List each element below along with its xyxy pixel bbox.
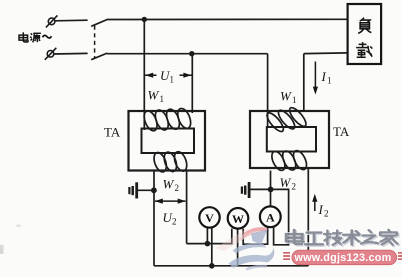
- label I2: [318, 202, 329, 219]
- junction node line1-TA1: [142, 17, 147, 22]
- winding W2 of TA2: [269, 149, 309, 173]
- transformer TA1 core outer box: [129, 111, 206, 171]
- label 载 (load char 2): [356, 42, 372, 57]
- ground symbol TA2: [242, 182, 271, 198]
- winding W2 of TA1: [152, 150, 189, 173]
- wire TA2 secondary left drop: [270, 171, 272, 190]
- label 负 (load char 1): [358, 18, 371, 34]
- winding W1 of TA1: [142, 107, 194, 133]
- svg-text:1: 1: [160, 94, 165, 104]
- wire line1 left segment: [55, 19, 88, 22]
- transformer TA2 core inner box: [267, 127, 316, 152]
- svg-text:W: W: [163, 177, 175, 192]
- wire line1 main: [107, 18, 348, 20]
- ammeter A: [260, 206, 281, 227]
- wire TA2 primary right riser: [303, 54, 305, 112]
- wire load branch bottom: [304, 52, 348, 55]
- switch blade top: [91, 20, 107, 27]
- wire TA1 primary right riser: [191, 54, 193, 113]
- svg-text:2: 2: [172, 217, 177, 227]
- label W1 of TA2: [280, 89, 297, 106]
- wire bus1 voltage: [187, 229, 232, 244]
- svg-text:2: 2: [292, 182, 297, 192]
- wire TA1 secondary left drop: [153, 171, 155, 266]
- wire W right to A left: [243, 227, 267, 244]
- winding W1 of TA2: [264, 105, 308, 134]
- terminal source top: [46, 15, 58, 27]
- arrow I2: [312, 194, 317, 211]
- label W2 of TA2: [280, 175, 297, 192]
- label 源 (source char 2): [30, 33, 41, 42]
- junction node V bus2: [209, 263, 215, 269]
- svg-text:www.dgjs123.com: www.dgjs123.com: [294, 252, 392, 264]
- watermark logo swirl: [215, 229, 274, 270]
- arrow U2: [155, 199, 186, 204]
- svg-text:I: I: [321, 69, 327, 84]
- wire A right return: [271, 189, 289, 244]
- svg-text:I: I: [318, 202, 324, 217]
- label U2: [163, 210, 177, 227]
- scan speck left edge: [0, 245, 4, 254]
- junction node TA1 ground: [151, 187, 157, 193]
- svg-text:W: W: [280, 175, 292, 190]
- svg-text:W: W: [148, 88, 160, 103]
- voltmeter V: [199, 207, 219, 227]
- arrow I1: [313, 62, 318, 95]
- svg-text:2: 2: [324, 209, 329, 219]
- wire TA1 primary left riser: [143, 19, 145, 130]
- svg-text:1: 1: [170, 75, 175, 85]
- svg-text:TA: TA: [104, 125, 121, 140]
- wire TA2 primary left riser: [267, 54, 269, 128]
- transformer TA2 core outer box: [250, 111, 329, 168]
- watermark url band: [283, 250, 402, 264]
- svg-text:W: W: [232, 212, 244, 226]
- label ~ (source tilde): [43, 35, 52, 38]
- junction node TA2 ground: [268, 187, 274, 193]
- switch blade bottom: [91, 53, 107, 60]
- wire A top lead: [270, 189, 272, 206]
- svg-text:2: 2: [175, 183, 180, 193]
- junction node line2-TA1: [189, 51, 194, 56]
- label U1: [160, 68, 174, 85]
- switch linkage dashed: [94, 26, 96, 59]
- svg-text:1: 1: [292, 95, 297, 105]
- wire TA2 secondary right drop I2: [307, 168, 309, 266]
- label W2 of TA1: [163, 177, 180, 194]
- svg-text:A: A: [266, 210, 275, 224]
- arrow U1: [145, 73, 192, 78]
- wire V right lead: [211, 227, 213, 265]
- wire line2 main: [107, 53, 268, 55]
- wire TA1 secondary right drop: [186, 171, 188, 244]
- ground symbol TA1: [129, 182, 154, 198]
- svg-text:1: 1: [327, 76, 332, 86]
- wire bus2 common: [154, 265, 308, 267]
- load box: [348, 4, 382, 64]
- svg-text:W: W: [280, 89, 292, 104]
- transformer TA1 core inner box: [142, 129, 195, 154]
- junction node V bus1: [205, 241, 211, 247]
- label 电 (source char 1): [19, 32, 28, 42]
- wire W middle lead: [237, 229, 239, 266]
- terminal source bottom: [45, 48, 57, 60]
- wire line2 left segment: [54, 52, 88, 55]
- wire V left lead: [206, 227, 208, 243]
- label W1 of TA1: [148, 88, 165, 105]
- svg-text:TA: TA: [333, 124, 350, 139]
- svg-text:V: V: [205, 211, 214, 225]
- wattmeter W: [228, 208, 249, 229]
- label I1: [321, 69, 332, 86]
